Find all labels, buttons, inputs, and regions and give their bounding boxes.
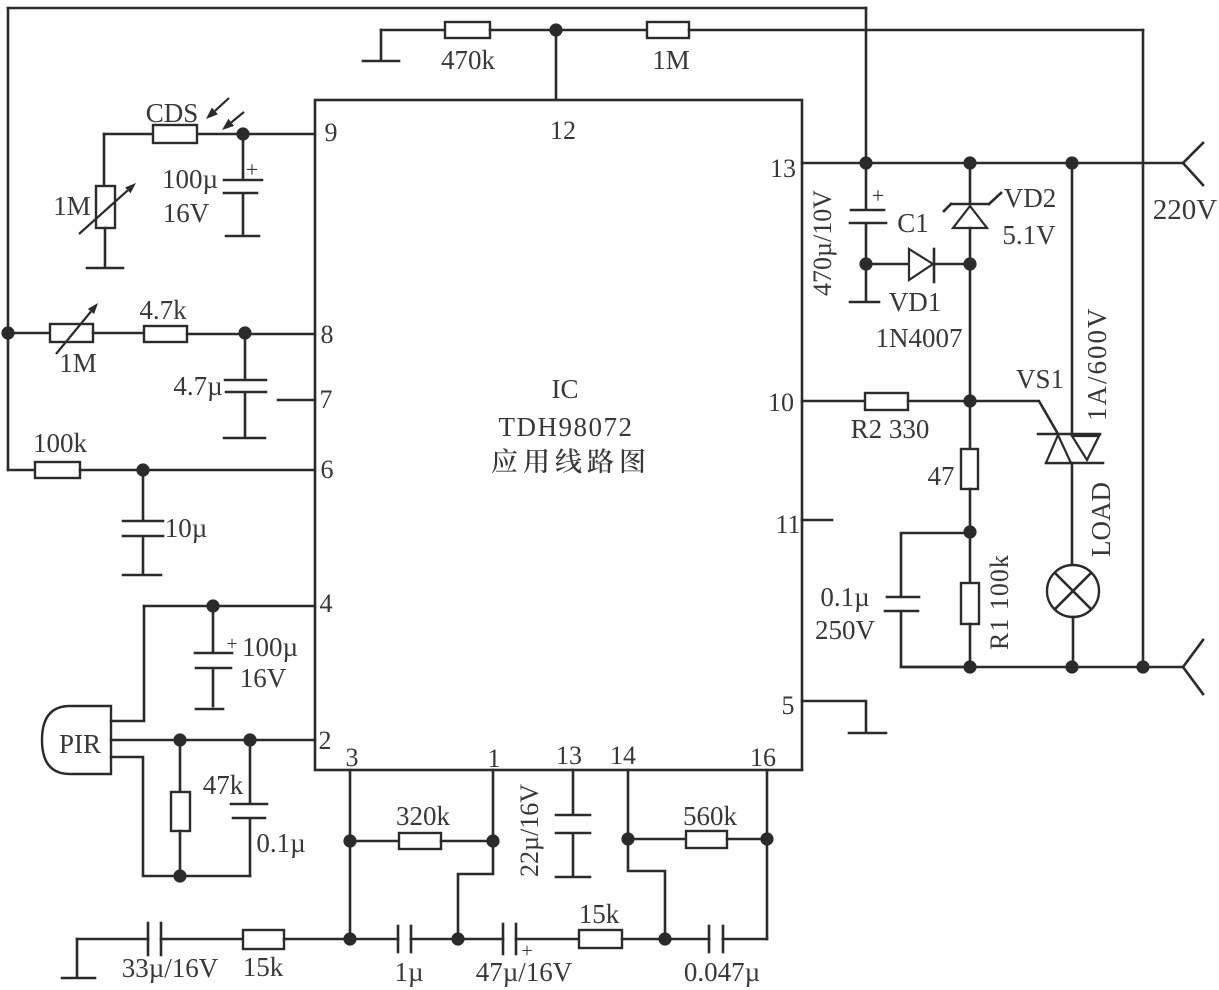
capacitor 100u/16V (PIR supply) [195,606,298,709]
node junction pin13/C1 [859,156,872,169]
svg-text:6: 6 [321,455,334,484]
svg-text:4.7k: 4.7k [139,295,187,325]
svg-text:33µ/16V: 33µ/16V [122,953,219,983]
pin 14 label [610,741,636,770]
svg-text:14: 14 [610,741,636,770]
svg-text:250V: 250V [815,615,876,645]
pin 3 label [346,743,359,772]
node junction pin10/47 [963,394,976,407]
svg-text:+: + [226,633,237,655]
svg-text:+: + [872,183,884,208]
wire pin 1 [492,770,495,841]
svg-text:10µ: 10µ [165,513,208,543]
svg-text:2: 2 [319,726,332,755]
svg-text:47µ/16V: 47µ/16V [476,957,573,987]
node junction pin2/47k [173,733,186,746]
svg-text:1µ: 1µ [394,957,423,987]
capacitor 0.1u (PIR) [231,740,306,876]
svg-text:320k: 320k [396,801,451,831]
wire bottom rail segment A [77,938,148,941]
ground (bottom-left) [62,939,95,978]
node junction CDS/100u/pin9 [236,127,249,140]
svg-text:1A/600V: 1A/600V [1082,307,1112,422]
wire pin 11 stub [802,519,832,522]
resistor 320k [350,801,493,849]
svg-text:7: 7 [320,385,333,414]
pin 9 label [325,118,338,147]
node junction pin13/VD2 [963,156,976,169]
resistor 100k [33,428,315,478]
capacitor C1 470u/10V [808,163,929,296]
capacitor 100u/16V (CDS filter) [162,134,262,236]
potentiometer 1M (pin 8) [50,303,98,378]
svg-text:R2 330: R2 330 [851,414,930,444]
wire bottom rail segment B [161,938,243,941]
node junction pin16/560k [760,832,773,845]
node junction rail/lamp [1065,660,1078,673]
resistor 560k [628,801,767,848]
triac VS1 [1016,163,1112,565]
wire PIR bottom pin [111,757,250,876]
wire right branch (1M to bottom rail) [1142,30,1145,667]
wire pin 13 line [802,162,1183,165]
pin 7 label [320,385,333,414]
wire bottom rail segment J [723,938,767,941]
node junction C1/VD1 [859,257,872,270]
wire VD2 node to pin 10 node [969,264,972,401]
svg-text:IC: IC [552,374,579,404]
svg-text:13: 13 [556,741,582,770]
svg-text:3: 3 [346,743,359,772]
node junction 470k/1M/pin12 [549,23,562,36]
capacitor 47u/16V [476,924,573,987]
node junction pin13/triac [1065,156,1078,169]
svg-text:4: 4 [320,589,333,618]
node junction pin6/10u [136,463,149,476]
svg-text:0.1µ: 0.1µ [820,582,869,612]
pin 13 label (right) [770,154,796,183]
svg-text:C1: C1 [897,208,929,238]
wire bottom rail segment I [665,938,709,941]
pin 1 label [488,744,501,773]
wire pin 8 left segment [8,332,50,335]
svg-text:0.1µ: 0.1µ [256,828,305,858]
svg-text:9: 9 [325,118,338,147]
svg-text:470k: 470k [441,45,496,75]
wire top border down-leg to pin13 node [865,8,868,163]
svg-text:12: 12 [550,116,576,145]
wire pin 14 [627,770,630,839]
wire bottom rail segment C [284,938,350,941]
svg-text:1: 1 [488,744,501,773]
op-amp U1 IC TDH98072 box [315,100,802,770]
wire left border [7,8,10,470]
wire bottom rail segment D [350,938,398,941]
resistor 47 [928,401,979,532]
svg-text:11: 11 [775,510,800,539]
resistor R1 100k [961,532,1014,667]
svg-text:CDS: CDS [146,98,199,128]
node junction left border/pin8 [1,326,14,339]
zener diode VD2 5.1V [944,163,1056,264]
resistor 470k [381,22,556,75]
svg-text:1M: 1M [652,45,690,75]
node junction pin8/4.7u [238,326,251,339]
node junction pin2/0.1u [243,733,256,746]
diode VD1 1N4007 [866,249,970,353]
svg-text:0.047µ: 0.047µ [684,957,760,987]
node junction pin1/320k [486,834,499,847]
svg-text:560k: 560k [683,801,738,831]
svg-text:15k: 15k [579,899,620,929]
light arrows onto CDS [206,98,244,130]
photoresistor CDS [104,98,198,143]
node junction rail/pin1 jog [451,932,464,945]
wire PIR top pin to pin4 line [111,606,144,721]
svg-text:470µ/10V: 470µ/10V [808,190,837,296]
node junction rail/pin3 [343,932,356,945]
node junction 47k/PIR bottom [173,869,186,882]
svg-text:100µ: 100µ [242,632,298,662]
resistor 1M (top) [556,22,1143,75]
potentiometer 1M (CDS divider) [53,134,136,266]
svg-text:VD2: VD2 [1004,183,1057,213]
node junction pin4/100u [206,599,219,612]
wire pin 16 [766,770,769,939]
wire pin14 jog to rail [628,839,665,939]
node junction pin14/560k [621,832,634,845]
svg-text:22µ/16V: 22µ/16V [515,784,544,877]
wire bottom rail segment H [622,938,665,941]
svg-text:16V: 16V [240,663,287,693]
svg-text:100µ: 100µ [162,164,218,194]
pin 4 label [320,589,333,618]
wire triac gate [970,401,1058,434]
node junction rail/right branch [1136,660,1149,673]
svg-text:220V: 220V [1153,194,1218,226]
wire pin 12 [555,30,558,100]
svg-text:47: 47 [928,461,955,491]
PIR sensor [42,706,111,774]
svg-text:100k: 100k [33,428,88,458]
pin 12 label [550,116,576,145]
wire pin 4 [144,605,315,608]
wire bottom rail segment G [516,938,579,941]
svg-text:VD1: VD1 [889,287,942,317]
ground terminal (470k left end) [363,30,399,61]
wire PIR middle pin to pin 2 [111,739,315,742]
capacitor 0.047u [684,926,760,987]
svg-text:4.7µ: 4.7µ [173,371,222,401]
ground (under 1M potentiometer) [87,267,123,270]
svg-text:LOAD: LOAD [1086,482,1116,557]
svg-text:16: 16 [750,743,776,772]
pin 11 label [775,510,800,539]
capacitor 1u [394,926,423,987]
svg-text:1M: 1M [53,191,91,221]
capacitor 33u/16V [122,923,219,983]
wire C1 negative terminal bar [850,264,879,302]
pin 2 label [319,726,332,755]
node junction 47/R1/0.1u [963,525,976,538]
svg-text:8: 8 [321,320,334,349]
wire bottom rail segment F [458,938,503,941]
wire bottom rail (right) [901,666,1183,669]
wire pin1 jog to rail [458,841,493,939]
pin 8 label [321,320,334,349]
wire pin 7 stub [278,399,315,402]
resistor R2 330 [802,393,970,444]
capacitor 22u/16V [515,770,590,877]
pin 10 label [768,388,794,417]
wire pin 9 [197,133,315,136]
svg-text:R1 100k: R1 100k [985,554,1014,650]
pin 6 label [321,455,334,484]
svg-text:PIR: PIR [59,729,101,759]
svg-text:5: 5 [782,691,795,720]
IC title 应用线路图 [492,448,644,473]
svg-text:5.1V: 5.1V [1002,220,1056,250]
svg-text:TDH98072: TDH98072 [499,412,634,442]
terminal 220V (bottom) [1183,640,1203,694]
svg-text:VS1: VS1 [1016,364,1064,394]
node junction VD1/VD2 [963,257,976,270]
lamp LOAD [1047,482,1116,667]
wire bottom rail segment E [411,938,458,941]
svg-text:+: + [246,157,258,182]
svg-text:1M: 1M [59,348,97,378]
resistor 4.7k [93,295,315,342]
pin 13 label (bottom) [556,741,582,770]
pin 16 label [750,743,776,772]
pin 5 label [782,691,795,720]
wire pin 3 [349,770,352,939]
resistor 47k [171,740,244,876]
capacitor 10u [123,470,207,575]
node junction pin3/320k [343,834,356,847]
svg-text:1N4007: 1N4007 [876,323,963,353]
wire pin 6 left segment [8,469,35,472]
svg-text:10: 10 [768,388,794,417]
svg-text:16V: 16V [163,198,210,228]
resistor 15k (right) [579,899,622,948]
wire top border [8,7,866,10]
wire pin 5 to ground [802,701,886,733]
capacitor 0.1u/250V [815,533,970,667]
svg-text:13: 13 [770,154,796,183]
node junction rail/pin14 jog [658,932,671,945]
svg-text:15k: 15k [243,952,284,982]
terminal 220V (top) [1153,143,1218,226]
resistor 15k (left) [243,930,284,982]
node junction rail/R1 [963,660,976,673]
capacitor 4.7u [173,333,266,438]
svg-text:47k: 47k [203,770,244,800]
